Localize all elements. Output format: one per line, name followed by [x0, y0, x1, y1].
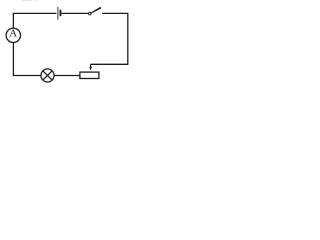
svg-text:A: A: [9, 28, 17, 40]
